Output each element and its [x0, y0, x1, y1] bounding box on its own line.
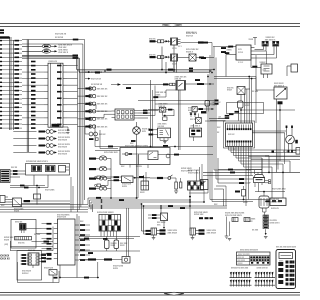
connector J4 body: [141, 181, 149, 190]
wire row L8 with label: [0, 69, 2, 70]
fuse panel drop wires: [100, 231, 102, 237]
heater box bottom pins: [129, 165, 131, 168]
wire row L22 with label: [0, 127, 2, 128]
switch panel right pin 6: [75, 249, 79, 251]
wire label panel bus: [20, 185, 25, 187]
wire label lamp feed 2: [146, 233, 151, 235]
harness bus vertical wires mid: [26, 40, 28, 153]
connector J1 pin 10 right stub: [63, 123, 67, 125]
terminal TB1 pins: [263, 46, 265, 49]
hazard feed wires: [32, 241, 54, 243]
ignition switch S1 left pins: [247, 178, 253, 180]
alternator G1 right pins: [251, 47, 255, 49]
svg-text:XXXX XXX: XXXX XXX: [57, 217, 67, 219]
svg-text:XXXXXX XX XXX XXX: XXXXXX XX XXX XXX: [231, 267, 249, 269]
svg-text:XXX XXXX XXX: XXX XXXX XXX: [272, 189, 286, 191]
solenoid L1 body: [189, 54, 196, 61]
flasher U3 stubs: [193, 124, 195, 128]
spare circuit row 1 label: [39, 131, 46, 133]
sender S3 out label: [168, 109, 172, 111]
wire row L4 with label: [0, 52, 2, 53]
instrument cluster top pin row: [227, 125, 229, 131]
turn signal left pin 1: [29, 254, 32, 256]
turn signal bottom wire: [32, 265, 34, 268]
instrument cluster left entry wires: [205, 120, 226, 122]
instrument cluster shroud: [224, 121, 255, 148]
svg-text:XXX XXX XX: XXX XXX XX: [97, 96, 108, 98]
svg-text:XXX XXX XX: XXX XXX XX: [97, 111, 108, 113]
wire J1 to bulkhead 1: [85, 104, 96, 106]
wire row L2 with label: [0, 44, 2, 45]
spine nested elbow 1: [216, 185, 226, 187]
service blobs: [199, 217, 203, 219]
wire label ignition in 1: [239, 178, 244, 180]
heater control enclosure: [120, 148, 170, 165]
vertical harness bundle 2: [78, 71, 80, 210]
relay K5 output wires: [30, 200, 70, 202]
panel drop wires: [33, 175, 35, 186]
wire label alternator out: [228, 46, 233, 48]
gauge M1 body: [286, 135, 295, 144]
backup alarm stub: [52, 275, 54, 283]
connector J1 pin 2 left stub: [44, 71, 48, 73]
diode D1: [166, 40, 169, 42]
service connector 1: [232, 218, 238, 222]
ignition to sender wire: [255, 191, 285, 193]
relay K10 body: [176, 81, 186, 91]
wire label bus y69: [107, 69, 112, 71]
wire label bus 2: [119, 199, 124, 201]
relay K2 drop wires: [173, 61, 175, 71]
cab feed bus 1: [77, 69, 215, 71]
ignition switch S1 key: [254, 175, 265, 178]
gauge M1 right terminal: [294, 140, 295, 142]
svg-text:XXX XX XXX XXXX XXXX: XXX XX XXX XXXX XXXX: [276, 247, 297, 249]
wire J1 pin 5 to bundle: [67, 91, 78, 93]
blower resistor top wires: [196, 170, 198, 181]
svg-text:XXX XXX XX: XXX XXX XX: [97, 126, 108, 128]
fuse F8 body: [114, 240, 119, 249]
switch panel bottom stub: [59, 265, 61, 278]
relay K2 body: [171, 54, 178, 61]
cluster wire 1: [228, 146, 230, 150]
keypad right button grid: [286, 261, 289, 264]
row 8 marks: [89, 138, 94, 140]
turn signal wire labels right: [41, 254, 46, 256]
arrow pointer net B: [55, 50, 58, 52]
svg-text:XXXX XX: XXXX XX: [238, 257, 244, 259]
sender S3 body: [159, 107, 166, 112]
wire label alternator down: [225, 52, 230, 54]
wire K2 to L1: [178, 57, 190, 59]
instrument cluster connector body: [226, 123, 253, 147]
gauge top riser 1: [286, 126, 288, 136]
wires J2 to panel: [10, 170, 26, 172]
wire to J1 pin 4: [22, 84, 44, 86]
svg-text:XXX XXXX: XXX XXXX: [58, 139, 68, 141]
service drops: [226, 217, 228, 237]
circuit breaker CB4 wire: [96, 188, 99, 190]
wire row L18 with label: [0, 111, 2, 112]
spare circuit row 4 label: [39, 152, 46, 154]
resistor R3 body: [180, 182, 182, 188]
connector J1 pin 7 right stub: [63, 104, 67, 106]
border frame top line 2: [0, 26, 300, 28]
wire TB2 pin2 to alternator: [255, 57, 277, 59]
flasher input labels: [114, 176, 120, 178]
terminal strip bottom arrow: [265, 229, 267, 233]
switch panel body: [58, 219, 76, 265]
harness bus vertical wires left: [9, 37, 11, 130]
keypad body: [276, 250, 296, 289]
connector P6 wire: [101, 184, 109, 186]
wires J3 to K5: [8, 199, 13, 201]
switch row 3 wire: [78, 103, 86, 105]
spine bus wire 1: [207, 74, 209, 193]
wire label right of J1 pin 1: [57, 65, 62, 67]
resistor R4 stubs: [243, 186, 245, 190]
relay K9 body: [192, 107, 197, 112]
junction dots below panel: [36, 185, 38, 187]
switch row 2 wire: [78, 95, 86, 97]
horn B1 top stub: [136, 122, 138, 127]
wire row L5 with label: [0, 57, 2, 58]
cluster wire 2: [230, 146, 232, 153]
dome lamp module: [34, 194, 41, 199]
inline fuse F10 oval: [42, 44, 50, 48]
power bus drops to vertical bundle: [76, 55, 78, 69]
ground arrow near box B1: [55, 126, 69, 128]
lamp circuit vertical 1: [150, 80, 152, 148]
connector J1 pin 5 right stub: [63, 91, 67, 93]
power bus labels: [73, 55, 79, 57]
relay K11 bottom stub: [203, 190, 205, 203]
horn B1 body: [133, 127, 141, 135]
lamp circuit vertical 2: [152, 90, 154, 148]
spare circuit row 2 breaker: [46, 137, 50, 141]
wire TB1 pin2 to alternator: [255, 50, 267, 52]
connector J1 bottom blob: [52, 124, 60, 127]
switch panel right pin 2: [75, 229, 79, 231]
wire J1 pin 4 to bundle: [67, 84, 78, 86]
hour meter labels: [88, 258, 96, 260]
svg-text:(XX): (XX): [5, 244, 9, 246]
fuel pump FP2 body: [205, 101, 210, 107]
border frame top line 1: [0, 23, 300, 25]
wire label tag column2 row 20: [31, 119, 36, 121]
right riser x290: [289, 161, 291, 172]
resistor R2 body: [175, 182, 178, 189]
wire label K10 out 1: [195, 79, 200, 81]
connector J1 pin 4 right stub: [63, 84, 67, 86]
wire J1 to bulkhead 3: [85, 117, 104, 119]
switch row 3 label: [85, 103, 91, 105]
left connector P5: [97, 176, 101, 179]
fuse block FB left stub: [265, 201, 270, 203]
center vertical x138: [137, 155, 139, 198]
lamp feed vertical 2: [143, 206, 145, 234]
heater box wires: [122, 153, 127, 155]
right riser x283: [282, 164, 284, 198]
main harness bus center 5: [88, 205, 227, 207]
wire label net C mid: [126, 87, 131, 89]
wire row L19 with label: [0, 115, 2, 116]
connector J1 body: [48, 63, 63, 127]
fuse block FB body: [270, 198, 286, 206]
main harness bus center 4: [93, 203, 142, 205]
switch panel right pin 3: [75, 234, 79, 236]
spare circuit row 2 wire: [13, 138, 36, 140]
circuit breaker CB4 label: [89, 188, 96, 190]
svg-text:XXXX: XXXX: [4, 239, 10, 241]
main harness bus left 2: [0, 206, 88, 208]
harness connector X2 comb B: [255, 284, 276, 286]
wire label spine top 2: [201, 57, 206, 59]
svg-text:XXXX XX: XXXX XX: [271, 208, 279, 210]
bulkhead connector body: [115, 109, 134, 120]
svg-text:XXXX: XXXX: [227, 90, 233, 92]
relay K6 drop: [240, 95, 242, 102]
left feed vertical x73: [72, 186, 74, 210]
backup alarm body: [49, 270, 57, 276]
wire label K10 out blob: [200, 83, 205, 85]
right riser x284: [284, 133, 286, 164]
spare circuit row 3 arrow: [54, 144, 57, 146]
wire label y104: [215, 103, 219, 105]
bus below panel 2: [10, 187, 48, 189]
wire J1 pin 1 to bundle: [67, 65, 78, 67]
main harness bus center 6: [88, 207, 227, 209]
blower switch wire in: [150, 177, 157, 179]
wire J1 to bulkhead 2: [85, 110, 112, 112]
circuit breaker CB1 symbol: [99, 157, 102, 160]
wire row L15 with label: [0, 98, 2, 99]
spine bus wire 2: [209, 55, 211, 200]
bottom feed bus 3: [79, 250, 140, 252]
connector W1 shell: [0, 36, 10, 38]
vertical wire x17: [17, 262, 19, 283]
left dark tab: [272, 151, 275, 153]
turn signal connector body: [28, 253, 39, 265]
harness connector X2 comb A: [255, 277, 276, 279]
riser x256: [255, 77, 257, 91]
switch panel right pin 1: [75, 224, 79, 226]
circuit breaker CB2 symbol: [99, 167, 102, 170]
connector J1 pin 9 left stub: [44, 117, 48, 119]
wire to J1 pin 3: [22, 78, 44, 80]
wire label tag column2 row 19: [31, 115, 36, 117]
relay K6 right stub: [245, 88, 250, 90]
svg-text:XX XXX: XX XXX: [252, 91, 259, 93]
module K12 pins: [21, 230, 23, 233]
spare circuit row 3 wire: [13, 145, 36, 147]
svg-text:XXX XX: XXX XX: [186, 36, 194, 38]
bus junction dots x101: [101, 199, 103, 201]
inline fuse F11 oval: [42, 49, 50, 53]
right feed vertical x53: [52, 227, 54, 251]
relay K3 in panel: [32, 165, 42, 171]
switch row 4 breaker symbol: [89, 110, 92, 113]
spare circuit row 2 label: [39, 138, 46, 140]
fuel pump FP stubs: [238, 108, 240, 121]
vertical harness bundle 1: [77, 70, 79, 213]
switch row 6 wire: [78, 126, 86, 128]
bottom wire y277: [60, 277, 99, 279]
right riser x276: [276, 99, 278, 172]
wire label tag column2 row 10: [31, 77, 36, 79]
wire row L14 with label: [0, 94, 2, 95]
legend grid marks row 3: [251, 262, 253, 264]
bulkhead left pins: [112, 110, 116, 112]
wire alternator down feed: [226, 54, 233, 56]
long wire net 3: [95, 150, 120, 152]
relay K2 input label: [150, 56, 156, 58]
wire net to cab main: [22, 39, 85, 41]
svg-text:XXX XX: XXX XX: [18, 242, 25, 244]
wire label bottom y277: [84, 277, 89, 279]
power bus wires going right: [22, 54, 77, 56]
wire to J1 pin 7: [22, 104, 44, 106]
bus double label: [189, 68, 193, 70]
wire label alternator feed 1: [221, 47, 226, 49]
switch row 5 breaker symbol: [89, 117, 92, 120]
hour meter row wire: [79, 259, 122, 261]
svg-text:XXX XXXX: XXX XXXX: [45, 189, 55, 191]
connector W1 terminal block: [0, 29, 4, 31]
pressure module ground: [164, 140, 166, 141]
svg-text:XXXX-XX: XXXX-XX: [48, 61, 57, 63]
wire label ignition in 2: [239, 182, 244, 184]
main feed wire y172: [203, 171, 300, 173]
wire to J1 pin 6: [22, 97, 44, 99]
wire label right of J1 pin 2: [57, 71, 62, 73]
lamp DS2 wires: [196, 230, 199, 232]
switch panel left pin 1: [54, 223, 58, 225]
wire net second: [22, 43, 83, 45]
svg-text:XXXX XXX XX: XXXX XXX XX: [257, 267, 269, 269]
svg-text:XXX XXXX: XXX XXXX: [58, 132, 68, 134]
switch row 6 label: [85, 126, 91, 128]
switch row 1 breaker symbol: [89, 87, 92, 90]
circuit breaker CB3 symbol: [99, 177, 102, 180]
relay K7 body: [161, 213, 168, 221]
cab feed bus 2: [78, 70, 212, 72]
diode D5 on K10 input: [111, 84, 118, 86]
wire to J1 pin 2: [22, 71, 44, 73]
left feed vertical x71: [70, 177, 72, 212]
switch panel left pin 2: [54, 228, 58, 230]
bottom feed bus 2: [79, 238, 134, 240]
svg-text:XXX XXXX: XXX XXXX: [238, 260, 245, 262]
svg-text:XXXX XXX: XXXX XXX: [194, 214, 204, 216]
long wire y104: [155, 103, 214, 105]
wire J1 pin 2 to bundle: [67, 71, 78, 73]
spine nested elbow 2: [214, 188, 224, 190]
spine elbow to ignition left: [216, 178, 247, 180]
cluster wire 7: [243, 146, 245, 167]
wire row L7 with label: [0, 65, 2, 66]
wire row L20 with label: [0, 119, 2, 120]
terminal TB2 body: [273, 42, 275, 44]
fuel sender body: [259, 196, 269, 208]
svg-text:XXXX: XXXX: [238, 52, 244, 54]
switch panel right pin 4: [75, 239, 79, 241]
alternator sense stub: [254, 38, 256, 46]
cluster straight drop 1: [245, 170, 247, 207]
switch panel left pin 4: [54, 238, 58, 240]
lamp DS1 connector: [151, 228, 157, 235]
cab feed bus 3: [80, 72, 211, 74]
svg-text:XXXX XX: XXXX XX: [0, 258, 10, 260]
resistor R2 ground: [175, 189, 177, 191]
long wire y100: [138, 100, 214, 102]
relay K7 input labels: [152, 214, 157, 216]
wire to J1 pin 5: [22, 91, 44, 93]
turn signal left pin 3: [29, 260, 32, 262]
connector J1 pin 6 right stub: [63, 97, 67, 99]
wire label right of J1 pin 7: [57, 104, 62, 106]
small module under sender: [163, 117, 167, 120]
wire label tag column2 row 18: [31, 111, 36, 113]
svg-text:XXX XXX XX: XXX XXX XX: [97, 119, 108, 121]
main harness bus left 1: [0, 204, 88, 206]
svg-text:XXX XX XXX XXXX: XXX XX XXX XXXX: [225, 215, 242, 217]
service connector 2: [244, 218, 250, 222]
spine bus wire 5: [215, 58, 217, 180]
wire row L9 with label: [0, 73, 2, 74]
wire label tag column2 row 15: [31, 98, 36, 100]
wire heater to spine: [158, 154, 213, 156]
wire label tag column2 row 9: [31, 73, 36, 75]
svg-text:XXX XXXX XXX: XXX XXXX XXX: [104, 152, 118, 154]
switch panel right pin 5: [75, 244, 79, 246]
relay K9 out label: [199, 108, 204, 110]
svg-text:XXXX XXXX XXXXXXX: XXXX XXXX XXXXXXX: [240, 250, 259, 252]
gauge top riser 2: [291, 126, 293, 136]
ignition switch S1 bottom pins: [254, 183, 256, 187]
svg-text:XXX XXX XX: XXX XXX XX: [97, 104, 108, 106]
wire label tag column2 row 8: [31, 69, 36, 71]
circuit breaker CB1 label: [89, 158, 96, 160]
bulkhead right pins: [134, 110, 138, 112]
blower resistor bottom wire: [189, 190, 191, 231]
ignition switch S1 top pins: [254, 170, 256, 174]
svg-text:XXX XX XX: XXX XX XX: [91, 78, 102, 80]
circuit breaker CB3 label: [89, 178, 96, 180]
blower resistor dark cells: [188, 182, 190, 185]
ground riser bottom: [97, 262, 99, 278]
pointer text net C: [85, 71, 88, 73]
regulator VR1 body: [261, 64, 272, 74]
spare circuit row 4 breaker: [46, 151, 50, 155]
fuse panel connector body: [99, 215, 121, 232]
regulator VR1 bottom pins: [263, 74, 265, 78]
rheostat R10 arrow: [276, 89, 285, 97]
wire label right of J1 pin 4: [57, 84, 62, 86]
wire label tag column2 row 12: [31, 86, 36, 88]
cluster wire 9: [248, 146, 250, 157]
switch row 5 label: [85, 118, 91, 120]
wire label right of J1 pin 5: [57, 91, 62, 93]
wire J1 pin 10 to bundle: [67, 123, 78, 125]
blower switch wire out: [171, 177, 176, 179]
wire riser x100: [99, 130, 101, 149]
hour meter feed verticals: [126, 208, 128, 257]
wire row L6 with label: [0, 61, 2, 62]
wire label J2 feed: [13, 170, 18, 172]
wire label on net: [73, 39, 79, 41]
legend grid dark cells row 1: [250, 256, 252, 258]
